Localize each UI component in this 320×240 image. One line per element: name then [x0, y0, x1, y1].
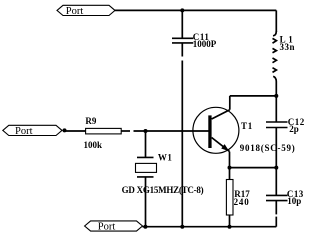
svg-text:W1: W1 — [158, 152, 173, 162]
capacitor C13 — [266, 168, 304, 227]
svg-text:240: 240 — [234, 197, 250, 207]
wire top rail — [115, 9, 276, 11]
svg-text:100k: 100k — [84, 140, 103, 150]
wire base — [134, 130, 209, 132]
node J6 (W1 / port) — [143, 225, 147, 229]
wire bottom rail — [143, 226, 277, 228]
resistor R17 — [226, 168, 250, 227]
wire collector horizontal — [230, 95, 276, 97]
node J4 (emitter / R17) — [228, 166, 232, 170]
svg-text:33n: 33n — [280, 42, 296, 52]
node J2 (collector / L1 / C12) — [274, 94, 278, 98]
wire emitter horizontal — [230, 167, 277, 169]
svg-text:10p: 10p — [287, 196, 301, 206]
svg-text:T1: T1 — [241, 121, 253, 131]
wire W1 upper — [145, 131, 147, 157]
wire port to R9 — [65, 130, 86, 132]
wire C11 to bottom rail — [181, 61, 183, 227]
capacitor C12 — [266, 96, 305, 168]
wire R9 right stub — [121, 130, 130, 132]
svg-text:Port: Port — [66, 6, 84, 17]
port P_top — [57, 5, 115, 17]
wire C11 upper — [181, 10, 183, 38]
wire emitter vertical — [229, 152, 231, 168]
svg-text:GD XG15MHZ(TC-8): GD XG15MHZ(TC-8) — [122, 185, 204, 195]
svg-text:2p: 2p — [289, 124, 299, 134]
svg-text:1000P: 1000P — [193, 39, 217, 49]
svg-text:Port: Port — [15, 126, 33, 137]
svg-text:9018(SC-59): 9018(SC-59) — [240, 143, 296, 153]
resistor R9 — [84, 116, 122, 150]
inductor L1 — [273, 10, 296, 96]
port P_bottom — [85, 221, 143, 233]
node J7 (C11 tap bottom) — [180, 225, 184, 229]
transistor T1 — [193, 107, 296, 153]
node J1 (top, C11 tap) — [180, 8, 184, 12]
port P_left — [3, 125, 67, 137]
capacitor C11 — [172, 32, 217, 49]
svg-text:R9: R9 — [85, 116, 96, 126]
svg-text:Port: Port — [98, 222, 116, 233]
crystal W1 — [122, 152, 204, 195]
node J3 (base / W1 tap) — [144, 129, 148, 133]
node J5 (C12 / C13 rail) — [274, 166, 278, 170]
wire C11 lower stub — [181, 43, 183, 57]
node J8 (R17 bottom) — [228, 225, 232, 229]
wire collector vertical — [229, 96, 231, 110]
wire W1 lower — [145, 177, 147, 227]
